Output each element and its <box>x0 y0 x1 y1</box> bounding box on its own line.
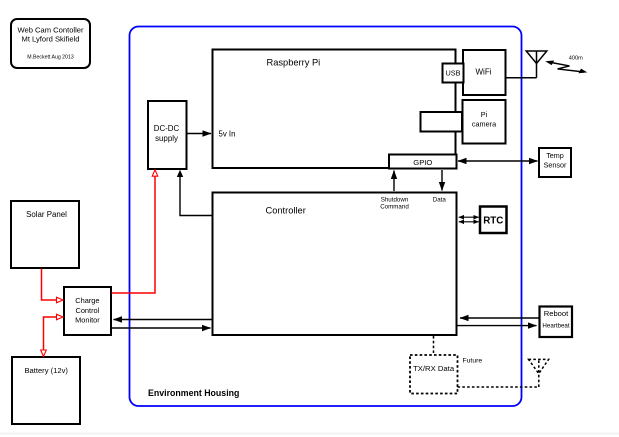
svg-text:Controller: Controller <box>266 206 306 216</box>
svg-text:GPIO: GPIO <box>413 158 432 167</box>
svg-text:Pi: Pi <box>481 110 488 119</box>
svg-text:Solar Panel: Solar Panel <box>26 210 67 219</box>
svg-text:Battery (12v): Battery (12v) <box>24 366 68 375</box>
svg-text:Web Cam Contoller: Web Cam Contoller <box>17 25 84 34</box>
svg-text:DC-DC: DC-DC <box>154 124 180 133</box>
svg-text:400m: 400m <box>569 55 583 61</box>
svg-text:Future: Future <box>463 358 483 365</box>
svg-text:Raspberry Pi: Raspberry Pi <box>267 58 321 68</box>
svg-text:M.Beckett Aug 2013: M.Beckett Aug 2013 <box>27 54 74 60</box>
svg-text:supply: supply <box>155 134 178 143</box>
svg-text:Control: Control <box>75 306 99 315</box>
svg-text:Mt Lyford Skifield: Mt Lyford Skifield <box>22 34 80 43</box>
svg-text:Monitor: Monitor <box>75 316 100 325</box>
svg-text:Command: Command <box>380 203 409 210</box>
svg-text:Sensor: Sensor <box>544 161 567 170</box>
svg-text:RTC: RTC <box>483 215 503 226</box>
svg-text:camera: camera <box>472 120 497 129</box>
svg-text:Heartbeat: Heartbeat <box>542 323 569 330</box>
svg-text:Environment Housing: Environment Housing <box>148 388 239 398</box>
svg-text:WiFi: WiFi <box>476 68 492 77</box>
svg-text:Data: Data <box>433 197 447 204</box>
svg-text:USB: USB <box>445 68 460 77</box>
svg-text:Temp: Temp <box>546 151 564 160</box>
svg-text:5v In: 5v In <box>219 130 236 139</box>
svg-text:Charge: Charge <box>75 296 99 305</box>
svg-text:Reboot: Reboot <box>544 309 569 318</box>
svg-text:TX/RX Data: TX/RX Data <box>413 364 455 373</box>
